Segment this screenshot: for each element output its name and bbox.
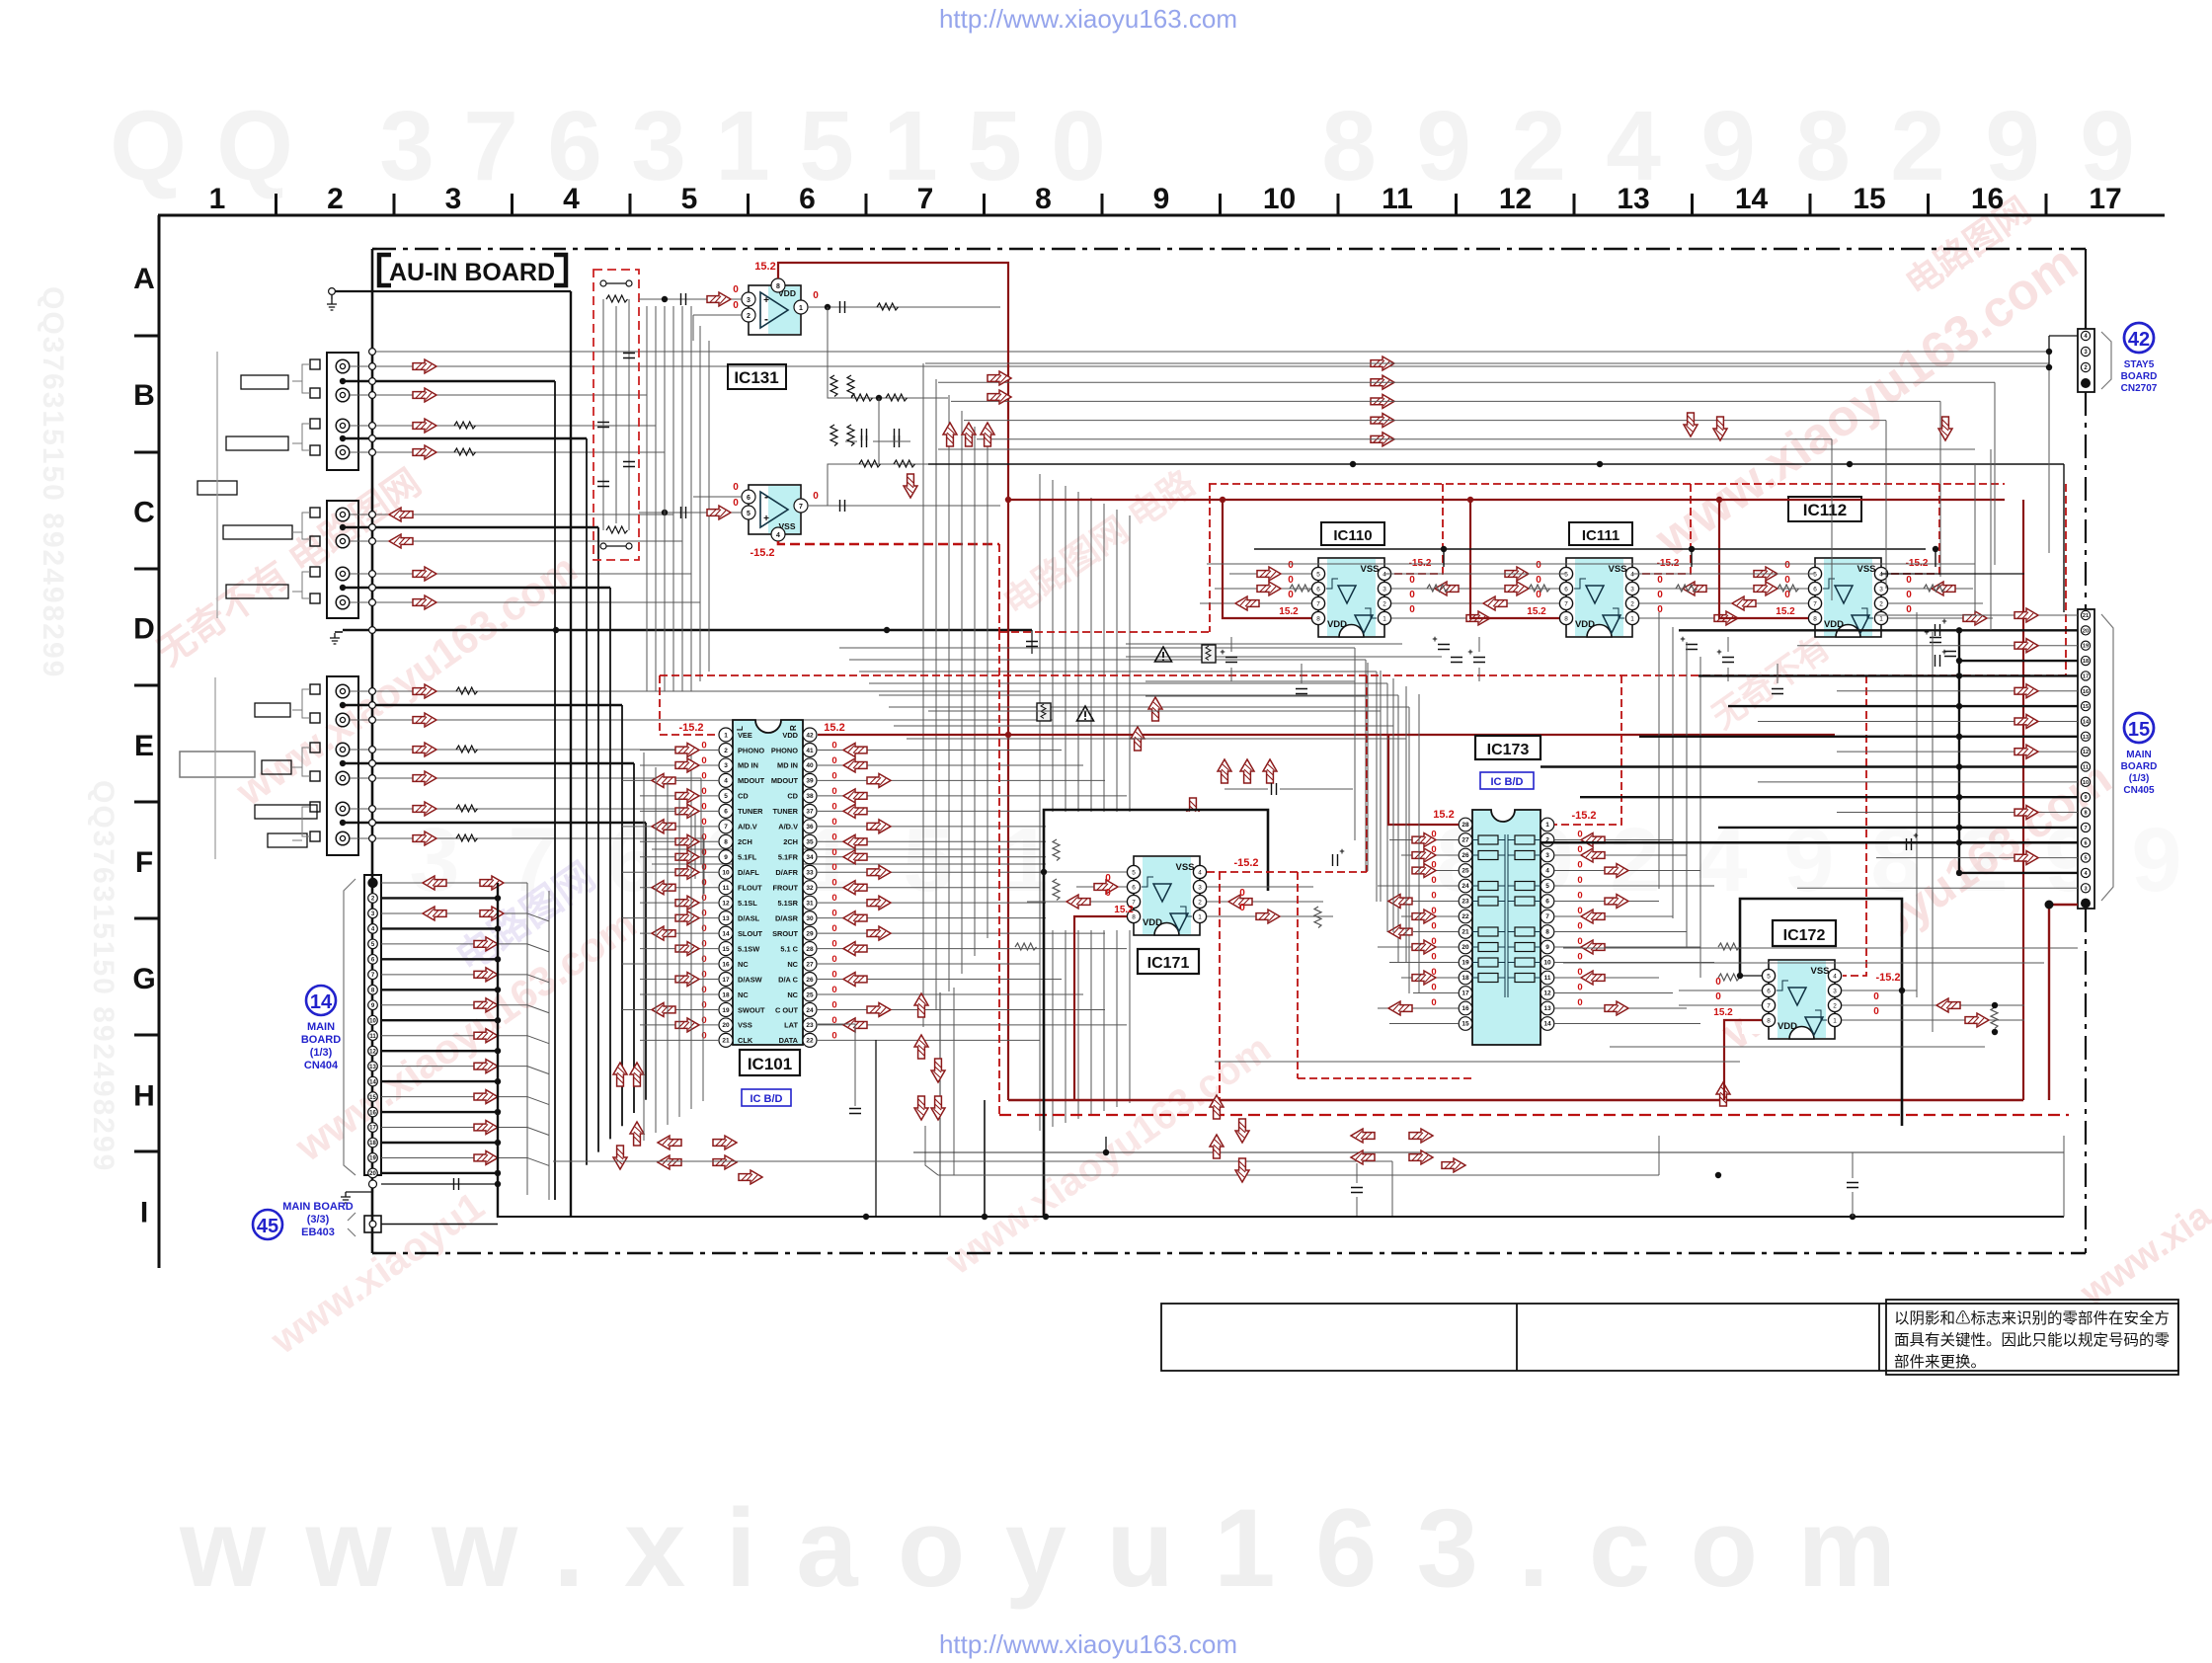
svg-text:0: 0 — [1431, 983, 1436, 993]
svg-text:面具有关键性。因此只能以规定号码的零: 面具有关键性。因此只能以规定号码的零 — [1894, 1331, 2171, 1349]
svg-text:3: 3 — [409, 810, 459, 911]
svg-text:0: 0 — [831, 954, 836, 965]
svg-text:IC B/D: IC B/D — [1491, 776, 1524, 788]
jumper bottom in dashed box — [600, 543, 606, 549]
IC110 arrows — [1257, 567, 1281, 581]
svg-text:11: 11 — [2083, 765, 2089, 771]
H row wires below IC101 — [925, 1126, 938, 1175]
left guide gray lines — [216, 352, 218, 618]
IC110 supply stubs — [1223, 500, 1311, 618]
red dashed box IC131 input — [593, 270, 639, 560]
IC172 enclosure thick rect — [1740, 899, 1902, 1126]
CN404 arrows — [423, 876, 446, 890]
cap at end of D bus — [1026, 642, 1038, 647]
svg-text:0: 0 — [1239, 888, 1245, 899]
svg-text:0: 0 — [701, 1015, 706, 1026]
svg-text:+: + — [1467, 647, 1472, 657]
svg-text:(1/3): (1/3) — [310, 1047, 333, 1059]
svg-text:16: 16 — [1971, 183, 2004, 215]
svg-text:19: 19 — [722, 1007, 730, 1014]
IC131 feedback network A — [828, 307, 948, 398]
IC173 pins left — [1459, 818, 1472, 831]
svg-text:E: E — [134, 730, 154, 762]
long bottom horizontal wires — [913, 1151, 2064, 1153]
svg-text:2: 2 — [1890, 91, 1945, 201]
svg-text:IC131: IC131 — [734, 368, 778, 387]
bottom thick collector wire — [982, 1214, 987, 1220]
svg-text:0: 0 — [831, 999, 836, 1010]
svg-text:-15.2: -15.2 — [678, 722, 703, 734]
svg-text:2CH: 2CH — [783, 837, 798, 846]
svg-text:27: 27 — [1461, 837, 1469, 844]
board dash-dot border top — [372, 248, 2086, 251]
svg-text:0: 0 — [831, 878, 836, 889]
svg-text:6: 6 — [2084, 840, 2087, 846]
gray verticals near IC172 — [1916, 612, 1918, 997]
svg-text:D/AFR: D/AFR — [775, 868, 798, 877]
svg-text:7: 7 — [463, 91, 518, 201]
svg-text:5: 5 — [2084, 856, 2087, 862]
left red arrows rows — [413, 359, 436, 373]
svg-text:27: 27 — [806, 961, 814, 968]
svg-text:0: 0 — [701, 893, 706, 904]
svg-text:15.2: 15.2 — [1433, 809, 1454, 821]
IC101 bottom area wires — [854, 1037, 856, 1106]
svg-text:G: G — [132, 963, 155, 995]
IC172 arrows — [1936, 998, 1960, 1012]
svg-text:0: 0 — [1577, 967, 1582, 978]
svg-text:0: 0 — [831, 770, 836, 781]
red dashed -15.2 from IC131 — [778, 541, 999, 544]
IC173 vertical feed bundle — [1354, 655, 1356, 840]
svg-text:2CH: 2CH — [738, 837, 752, 846]
svg-text:0: 0 — [1784, 575, 1790, 586]
svg-text:0: 0 — [831, 893, 836, 904]
op-amp IC101 body — [733, 720, 803, 1045]
svg-text:SLOUT: SLOUT — [738, 929, 763, 938]
svg-text:CN405: CN405 — [2123, 785, 2155, 796]
svg-text:0: 0 — [831, 923, 836, 934]
svg-text:D/ASL: D/ASL — [738, 913, 760, 922]
svg-text:18: 18 — [2083, 659, 2089, 665]
svg-text:2: 2 — [327, 183, 344, 215]
svg-text:34: 34 — [806, 854, 814, 861]
svg-text:3: 3 — [379, 91, 434, 201]
svg-text:0: 0 — [701, 786, 706, 797]
fusible resistor 2 — [1037, 703, 1051, 721]
svg-text:www.xiaoyu163.com: www.xiaoyu163.com — [179, 1486, 1926, 1610]
up arrow bundle near IC131 right — [943, 423, 957, 446]
svg-text:15.2: 15.2 — [754, 261, 775, 273]
svg-text:11: 11 — [369, 1034, 376, 1040]
svg-text:IC110: IC110 — [1333, 527, 1372, 544]
top bus drop vertical — [570, 291, 572, 1217]
CN404 odd pin thin wires — [381, 912, 527, 914]
svg-text:-: - — [764, 312, 768, 326]
svg-text:5: 5 — [903, 810, 953, 911]
blue ref 15 circle — [2124, 713, 2154, 743]
svg-text:4: 4 — [776, 532, 780, 539]
IC173 inner column lines — [1504, 834, 1506, 997]
red vertical right rail — [2022, 500, 2024, 1100]
caps between IC rows — [1438, 645, 1450, 650]
svg-text:0: 0 — [1657, 604, 1663, 615]
svg-text:0: 0 — [1577, 875, 1582, 886]
CN2707 lead wires — [2049, 335, 2078, 337]
IC110 decoupling caps — [1225, 658, 1237, 663]
red positive rail top — [1008, 499, 2005, 501]
svg-text:DATA: DATA — [779, 1036, 799, 1045]
caps in dashed box — [597, 423, 609, 428]
svg-text:38: 38 — [806, 793, 814, 800]
IC173 label box — [1475, 736, 1540, 759]
IC171 arrows — [1094, 880, 1118, 894]
svg-text:0: 0 — [831, 847, 836, 858]
svg-text:0: 0 — [1577, 983, 1582, 993]
IC172 left wires — [1740, 975, 1762, 977]
cap on right bottom — [1847, 1183, 1858, 1188]
svg-text:19: 19 — [2083, 644, 2089, 650]
IC171 right wires — [1207, 886, 1313, 888]
CN405 thick feeders — [1958, 630, 1960, 873]
CN404 pins — [367, 878, 377, 888]
svg-text:15: 15 — [722, 946, 730, 953]
ground at top rect — [331, 295, 333, 299]
RCA jacks group3 — [336, 684, 350, 698]
svg-text:1: 1 — [209, 183, 226, 215]
CN405 pins — [2081, 610, 2090, 619]
svg-text:4: 4 — [724, 778, 728, 785]
svg-text:3: 3 — [631, 91, 686, 201]
svg-text:http://www.xiaoyu163.com: http://www.xiaoyu163.com — [939, 1629, 1237, 1659]
row D feedthrough — [369, 627, 376, 634]
svg-text:15: 15 — [1853, 183, 1885, 215]
svg-text:QQ376315150 892498299: QQ376315150 892498299 — [87, 780, 119, 1172]
svg-text:5.1FL: 5.1FL — [738, 853, 757, 862]
RCA group2 labels — [223, 525, 292, 539]
svg-text:0: 0 — [831, 970, 836, 981]
svg-text:0: 0 — [831, 817, 836, 828]
svg-text:33: 33 — [806, 870, 814, 877]
svg-text:3: 3 — [747, 297, 750, 304]
gray long verticals right mid — [1974, 464, 1976, 612]
svg-text:CD: CD — [738, 792, 749, 801]
svg-text:8: 8 — [1545, 929, 1549, 936]
warning triangle 2 — [1077, 706, 1094, 721]
svg-text:5: 5 — [1545, 883, 1549, 890]
CN404 pin1 wire — [381, 882, 527, 884]
op-amp IC112 — [1808, 558, 1887, 637]
svg-text:BOARD: BOARD — [301, 1034, 341, 1046]
svg-text:0: 0 — [733, 284, 739, 295]
svg-text:9: 9 — [724, 854, 728, 861]
svg-text:0: 0 — [1239, 903, 1245, 913]
svg-text:0: 0 — [1288, 560, 1294, 571]
grid row ticks — [134, 335, 159, 338]
revision table frame — [1161, 1304, 2178, 1371]
svg-text:0: 0 — [1577, 952, 1582, 963]
EB403 wire — [381, 1224, 498, 1226]
IC131 opamp B pins — [742, 490, 755, 504]
red dashed VEE feed — [660, 675, 718, 735]
IC131 opamp A body — [749, 285, 801, 335]
svg-text:NC: NC — [787, 960, 798, 969]
svg-text:+: + — [763, 514, 769, 524]
svg-text:15.2: 15.2 — [1527, 606, 1546, 617]
svg-text:15.2: 15.2 — [1776, 606, 1795, 617]
jumper top in dashed box — [600, 280, 606, 286]
svg-text:CN2707: CN2707 — [2121, 383, 2158, 394]
svg-text:14: 14 — [1543, 1021, 1551, 1028]
svg-text:0: 0 — [1105, 873, 1111, 884]
svg-text:8: 8 — [776, 283, 780, 290]
svg-text:MAIN: MAIN — [307, 1021, 335, 1033]
grid ruler ticks — [275, 194, 277, 215]
svg-text:MDOUT: MDOUT — [771, 776, 799, 785]
RCA group3 chassis squares — [310, 684, 320, 694]
RCA connector group 3 body — [327, 676, 358, 855]
IC171 left wires — [1044, 871, 1127, 873]
IC172 label box — [1773, 920, 1836, 946]
input coupling row top — [639, 298, 749, 300]
svg-text:5: 5 — [747, 511, 750, 517]
svg-text:13: 13 — [369, 1065, 376, 1070]
svg-text:10: 10 — [369, 1018, 376, 1024]
svg-text:D/ASW: D/ASW — [738, 975, 762, 984]
svg-text:24: 24 — [1461, 883, 1469, 890]
svg-text:0: 0 — [1536, 575, 1541, 586]
board left edge bus — [371, 249, 374, 1253]
svg-text:-15.2: -15.2 — [1875, 972, 1900, 984]
gray D row extra lines — [1126, 643, 1402, 645]
bottom junctions — [1103, 1149, 1109, 1155]
svg-text:(3/3): (3/3) — [307, 1214, 330, 1226]
svg-text:12: 12 — [2083, 750, 2089, 755]
svg-text:Q: Q — [110, 91, 187, 201]
svg-text:13: 13 — [1617, 183, 1649, 215]
IC111 right wires — [1639, 588, 1724, 590]
svg-text:IC172: IC172 — [1783, 927, 1826, 944]
svg-text:45: 45 — [257, 1216, 278, 1237]
vertical x556 lower — [548, 891, 550, 1200]
svg-text:http://www.xiaoyu163.com: http://www.xiaoyu163.com — [939, 4, 1237, 34]
svg-text:32: 32 — [806, 885, 814, 892]
svg-text:5.1FR: 5.1FR — [778, 853, 799, 862]
svg-text:+: + — [1924, 627, 1929, 637]
svg-text:2: 2 — [747, 313, 750, 320]
svg-text:25: 25 — [1461, 868, 1469, 875]
IC110 label box — [1321, 522, 1384, 545]
svg-text:9: 9 — [2131, 810, 2181, 911]
RCA group2 chassis squares — [310, 508, 320, 517]
svg-text:19: 19 — [369, 1156, 376, 1162]
IC112 supply stubs — [1719, 500, 1808, 618]
wire shield rows thick — [343, 380, 555, 383]
RCA jacks group1 — [336, 359, 350, 373]
svg-text:6: 6 — [747, 495, 750, 502]
IC173 left arrows — [1412, 833, 1436, 847]
RCA group1 chassis squares — [310, 359, 320, 369]
svg-text:D/AFL: D/AFL — [738, 868, 759, 877]
svg-text:H: H — [133, 1079, 155, 1112]
svg-text:0: 0 — [831, 740, 836, 751]
svg-text:0: 0 — [831, 862, 836, 873]
svg-text:16: 16 — [369, 1110, 376, 1116]
svg-text:SWOUT: SWOUT — [738, 1005, 765, 1014]
board dash-dot border bottom — [372, 1252, 2086, 1255]
gray verticals right of IC173 — [1658, 612, 1660, 889]
RCA group3 labels — [255, 703, 290, 717]
gray bus above IC110 row — [1207, 563, 1975, 565]
svg-text:0: 0 — [701, 770, 706, 781]
svg-text:部件来更换。: 部件来更换。 — [1894, 1353, 1986, 1371]
svg-text:+: + — [1716, 647, 1721, 657]
svg-text:8: 8 — [1795, 91, 1851, 201]
svg-text:0: 0 — [1906, 575, 1912, 586]
svg-text:0: 0 — [1409, 590, 1415, 600]
svg-text:15: 15 — [2128, 719, 2150, 741]
svg-text:以阴影和⚠标志来识别的零部件在安全方: 以阴影和⚠标志来识别的零部件在安全方 — [1894, 1309, 2170, 1327]
svg-text:4: 4 — [1697, 810, 1747, 911]
IC171 label box — [1138, 949, 1199, 974]
svg-text:IC171: IC171 — [1147, 955, 1190, 972]
op-amp IC171 — [1127, 856, 1206, 935]
svg-text:0: 0 — [831, 801, 836, 812]
IC173 positive supply stub — [1388, 735, 1459, 825]
svg-text:2: 2 — [724, 748, 728, 754]
svg-text:0: 0 — [1288, 590, 1294, 600]
svg-text:41: 41 — [806, 748, 814, 754]
svg-text:0: 0 — [1577, 830, 1582, 840]
IC111 arrows — [1505, 567, 1529, 581]
svg-text:0: 0 — [1657, 590, 1663, 600]
svg-text:0: 0 — [831, 831, 836, 842]
svg-text:5.1 C: 5.1 C — [780, 944, 798, 953]
svg-text:0: 0 — [701, 954, 706, 965]
bottom vertical drops — [1105, 1137, 1107, 1152]
svg-text:A/D.V: A/D.V — [778, 823, 798, 831]
IC172 enclosure white interior — [1742, 901, 1900, 1034]
svg-text:+: + — [763, 295, 769, 306]
svg-text:+: + — [1432, 634, 1437, 644]
bracket stubs to squares — [302, 364, 310, 393]
svg-text:BOARD: BOARD — [2121, 371, 2158, 382]
long wires for arrow stack — [925, 362, 2049, 364]
ground symbol row D — [330, 633, 340, 644]
svg-text:0: 0 — [701, 1030, 706, 1041]
resistor links between ICs — [1427, 585, 1449, 592]
IC101 right stub wires — [817, 749, 1062, 751]
IC111 supply stubs — [1470, 500, 1559, 618]
G row long gray lines right — [1563, 947, 2078, 949]
svg-text:15.2: 15.2 — [1114, 905, 1134, 915]
svg-text:12: 12 — [1499, 183, 1532, 215]
svg-text:17: 17 — [1461, 990, 1469, 997]
warning triangle 1 — [1155, 647, 1172, 662]
svg-text:0: 0 — [1873, 991, 1879, 1002]
svg-text:0: 0 — [701, 740, 706, 751]
svg-text:0: 0 — [1577, 997, 1582, 1008]
black link bus IC row — [1254, 548, 1926, 550]
svg-text:15: 15 — [1461, 1021, 1469, 1028]
bottom cap — [1351, 1188, 1363, 1193]
svg-text:0: 0 — [1536, 560, 1541, 571]
svg-text:FLOUT: FLOUT — [738, 884, 762, 893]
svg-text:0: 0 — [1577, 936, 1582, 947]
svg-text:12: 12 — [369, 1049, 376, 1055]
svg-text:3: 3 — [724, 762, 728, 769]
IC173 negative dashed stub — [1554, 675, 1621, 825]
CN404 ground row — [369, 1180, 377, 1188]
IC131 label box — [728, 364, 786, 389]
extra right arrows mid — [987, 371, 1011, 385]
svg-text:+: + — [1220, 647, 1224, 657]
svg-text:40: 40 — [806, 762, 814, 769]
svg-text:TUNER: TUNER — [738, 807, 763, 816]
svg-text:MD IN: MD IN — [777, 761, 798, 770]
gray verticals through dashed box — [602, 299, 604, 530]
CN405 bottom red feed — [2049, 905, 2078, 1100]
IC112 left wires — [1726, 573, 1808, 575]
vertical collector right of CN404 — [497, 883, 499, 1218]
svg-text:7: 7 — [917, 183, 934, 215]
bus feedthrough circles — [369, 349, 376, 356]
bottom arrows cluster 2 — [1210, 1095, 1224, 1119]
IC131 out wire A — [808, 306, 1000, 308]
svg-text:0: 0 — [831, 1030, 836, 1041]
svg-text:0: 0 — [1409, 575, 1415, 586]
svg-text:0: 0 — [1906, 604, 1912, 615]
left vertical bundle below IC101 — [643, 752, 645, 1141]
vertical bundle below IC131 input — [646, 306, 648, 691]
IC112 label box — [1788, 497, 1861, 521]
IC111 decoupling caps — [1473, 658, 1485, 663]
svg-text:16: 16 — [722, 961, 730, 968]
red supply wire 15.2 to IC131 — [778, 263, 1008, 1100]
IC101 pins right — [803, 728, 817, 742]
svg-text:0: 0 — [813, 491, 819, 502]
AU-IN BOARD title — [379, 255, 566, 285]
svg-text:0: 0 — [733, 482, 739, 493]
svg-text:0: 0 — [1431, 921, 1436, 932]
IC173 right arrows — [1581, 833, 1605, 847]
svg-text:42: 42 — [2128, 329, 2150, 351]
svg-text:8: 8 — [1321, 91, 1377, 201]
red dashed bottom rail — [998, 632, 1000, 1115]
board dash-dot border right upper — [2085, 249, 2087, 329]
svg-text:6: 6 — [1545, 899, 1549, 906]
svg-text:16: 16 — [2083, 689, 2089, 695]
wire row B second long line — [372, 351, 2049, 353]
op-amp IC172 — [1762, 960, 1841, 1039]
svg-text:0: 0 — [701, 817, 706, 828]
svg-text:0: 0 — [1288, 575, 1294, 586]
upper mid horizontal gray lines — [839, 647, 1355, 649]
svg-text:15.2: 15.2 — [1713, 1007, 1733, 1018]
svg-text:23: 23 — [1461, 899, 1469, 906]
CN405 row caps — [1935, 624, 1940, 636]
red dashed long negative rail — [660, 674, 2066, 676]
row B long bus lines right — [928, 463, 2064, 465]
svg-text:4: 4 — [1545, 868, 1549, 875]
svg-text:D/ASR: D/ASR — [775, 913, 799, 922]
svg-text:0: 0 — [1906, 590, 1912, 600]
IC111 left wires — [1477, 573, 1559, 575]
IC173 left wires — [1389, 839, 1459, 841]
svg-text:0: 0 — [701, 970, 706, 981]
red bottom bus — [1008, 1099, 2023, 1102]
svg-text:21: 21 — [2083, 613, 2089, 619]
